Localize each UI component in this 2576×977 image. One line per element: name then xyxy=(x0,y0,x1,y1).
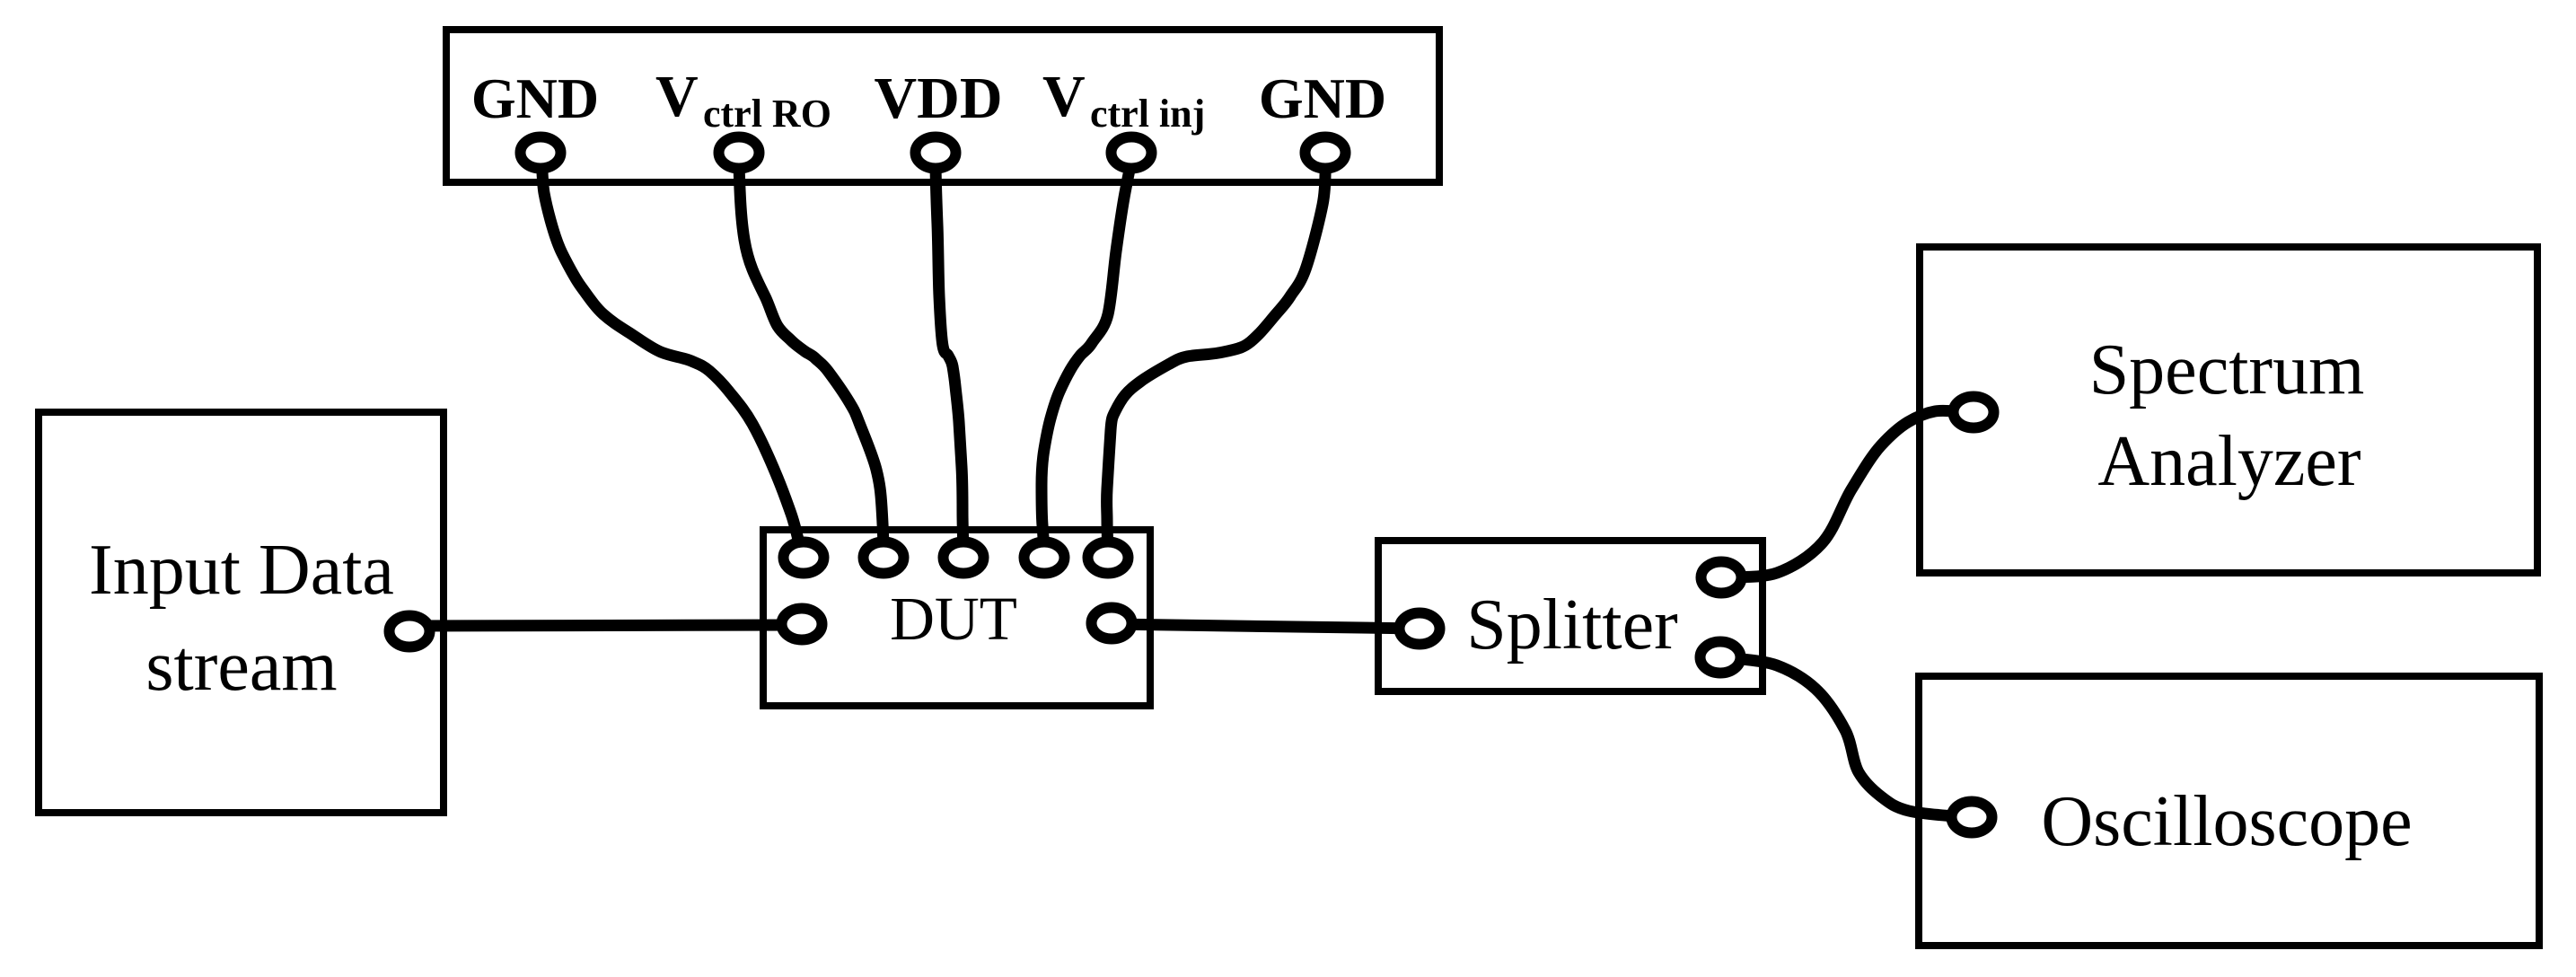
DUT pin 1 xyxy=(784,542,824,574)
label Oscilloscope xyxy=(2041,782,2412,861)
supply header box xyxy=(446,30,1439,182)
splitter output node top xyxy=(1701,562,1742,594)
DUT pin 5 xyxy=(1088,542,1129,574)
oscilloscope box xyxy=(1919,676,2539,946)
terminal Vctrl RO xyxy=(719,137,760,169)
label Spectrum Analyzer xyxy=(2089,330,2365,501)
DUT output pin xyxy=(1092,608,1132,639)
DUT box xyxy=(763,530,1150,706)
spectrum analyzer input node xyxy=(1954,397,1994,428)
svg-text:Spectrum: Spectrum xyxy=(2089,330,2365,409)
splitter box xyxy=(1378,541,1763,691)
label Vctrl inj xyxy=(1042,64,1205,136)
wire DUT output pin to splitter input xyxy=(1112,624,1420,629)
label Vctrl RO xyxy=(655,64,831,136)
DUT input pin xyxy=(782,609,822,640)
terminal VDD xyxy=(916,137,956,169)
DUT pin 2 xyxy=(864,542,904,574)
svg-text:Oscilloscope: Oscilloscope xyxy=(2041,782,2412,861)
label DUT xyxy=(890,585,1017,653)
terminal GND right xyxy=(1306,137,1346,169)
svg-text:Analyzer: Analyzer xyxy=(2097,422,2361,501)
splitter input node xyxy=(1400,613,1440,645)
svg-text:Splitter: Splitter xyxy=(1466,585,1678,665)
wire splitter to spectrum analyzer xyxy=(1728,410,1966,577)
svg-text:ctrl inj: ctrl inj xyxy=(1090,92,1205,136)
label GND left xyxy=(471,66,599,130)
splitter output node bottom xyxy=(1701,642,1741,673)
svg-text:V: V xyxy=(655,64,699,129)
svg-text:Input Data: Input Data xyxy=(89,531,394,610)
label VDD xyxy=(875,66,1003,131)
svg-text:GND: GND xyxy=(471,66,599,130)
wire input box to DUT input pin xyxy=(409,625,802,626)
svg-text:V: V xyxy=(1042,64,1086,129)
svg-text:DUT: DUT xyxy=(890,585,1017,653)
wire VDD terminal to DUT pin 3 xyxy=(936,160,963,555)
wire Vctrl inj terminal to DUT pin 4 xyxy=(1042,160,1131,555)
wire splitter to oscilloscope xyxy=(1728,657,1966,817)
DUT pin 3 xyxy=(944,542,984,574)
label Splitter xyxy=(1466,585,1678,665)
label GND right xyxy=(1259,66,1386,130)
oscilloscope input node xyxy=(1952,802,1992,833)
svg-text:VDD: VDD xyxy=(875,66,1003,131)
input data stream box xyxy=(39,412,444,813)
DUT pin 4 xyxy=(1024,542,1065,574)
svg-text:stream: stream xyxy=(145,627,337,706)
terminal Vctrl inj xyxy=(1112,137,1152,169)
wire Vctrl RO terminal to DUT pin 2 xyxy=(739,160,884,555)
svg-text:ctrl RO: ctrl RO xyxy=(703,92,831,136)
terminal GND left xyxy=(521,137,561,169)
input box output node xyxy=(390,616,430,647)
svg-text:GND: GND xyxy=(1259,66,1386,130)
label Input Data stream xyxy=(89,531,394,706)
wire GND right terminal to DUT pin 5 xyxy=(1107,160,1326,555)
wire GND left terminal to DUT pin 1 xyxy=(541,160,802,555)
spectrum analyzer box xyxy=(1920,247,2537,573)
